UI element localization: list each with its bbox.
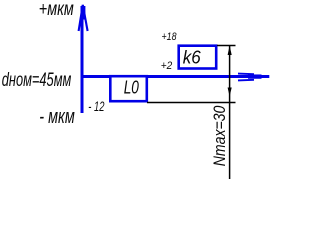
svg-text:+2: +2 bbox=[161, 60, 173, 72]
svg-text:- мкм: - мкм bbox=[39, 105, 75, 128]
svg-text:dном=45мм: dном=45мм bbox=[2, 69, 72, 91]
extension line +18 bbox=[217, 45, 236, 47]
vertical deviation axis bbox=[81, 6, 84, 113]
svg-text:+мкм: +мкм bbox=[39, 0, 74, 20]
svg-text:- 12: - 12 bbox=[88, 99, 104, 114]
svg-text:L0: L0 bbox=[124, 76, 140, 97]
svg-text:Nmax=30: Nmax=30 bbox=[211, 106, 229, 167]
extension line -12 bbox=[147, 102, 236, 104]
axis arrowhead bbox=[79, 5, 83, 31]
dimension arrow up bbox=[228, 46, 232, 56]
svg-text:k6: k6 bbox=[183, 46, 202, 67]
tolerance box L0 bbox=[110, 76, 147, 101]
zero line arrowhead bbox=[238, 73, 254, 76]
dimension arrow down bbox=[228, 88, 232, 97]
svg-text:+18: +18 bbox=[162, 31, 178, 43]
dimension line Nmax bbox=[229, 46, 231, 180]
zero line (nominal size line) bbox=[81, 75, 270, 78]
tolerance box k6 bbox=[179, 46, 217, 69]
